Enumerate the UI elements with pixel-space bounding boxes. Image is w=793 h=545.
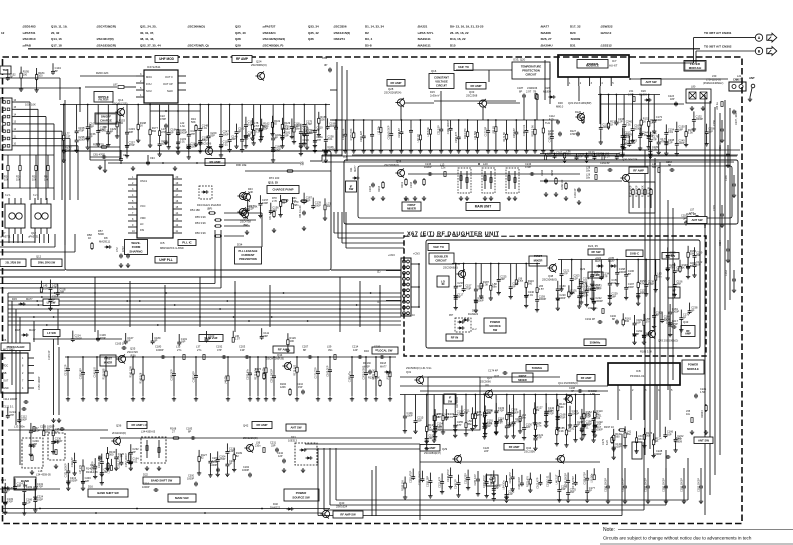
- resistor R157: [636, 259, 647, 306]
- svg-text:R101: R101: [401, 181, 404, 188]
- capacitor C110: [313, 105, 324, 153]
- svg-text:C162 8P: C162 8P: [600, 162, 610, 165]
- resistor R183: [433, 409, 444, 439]
- svg-text:8P: 8P: [519, 89, 522, 93]
- svg-text:12P: 12P: [526, 425, 531, 429]
- svg-text:AMP: AMP: [685, 331, 691, 335]
- svg-text::2SA1832(GR): :2SA1832(GR): [96, 44, 116, 48]
- svg-text:47P: 47P: [457, 423, 462, 427]
- resistor R171: [503, 120, 509, 153]
- svg-text:15: 15: [14, 107, 17, 109]
- inductor L51: [526, 86, 537, 98]
- capacitor C184b: [541, 169, 558, 196]
- svg-text:1000P: 1000P: [242, 469, 250, 472]
- svg-text:47P: 47P: [190, 132, 195, 136]
- svg-text:Q10, 11, 19,: Q10, 11, 19,: [51, 25, 68, 29]
- svg-text:1K: 1K: [88, 236, 91, 240]
- svg-text:Q28: Q28: [235, 37, 241, 41]
- svg-text:IN: IN: [3, 357, 6, 360]
- diode D13: [1, 478, 10, 490]
- diode bank X67: [449, 315, 477, 332]
- transistor Q37b: [480, 365, 548, 399]
- svg-text:C189 1000P: C189 1000P: [419, 471, 422, 485]
- diode D27: [674, 436, 713, 444]
- capacitor C259: [240, 104, 251, 152]
- svg-text:TH1: TH1: [545, 121, 550, 125]
- capacitor C124: [579, 260, 590, 305]
- node (4) left: [300, 162, 304, 166]
- wire bus: [8, 320, 401, 322]
- svg-text:0.01: 0.01: [528, 293, 534, 297]
- transistor Q43: [640, 319, 695, 354]
- label IF SW q37: [444, 394, 459, 408]
- svg-text:R109 10K: R109 10K: [401, 480, 404, 491]
- svg-text:C148 3P: C148 3P: [574, 188, 577, 198]
- wire: [456, 173, 580, 175]
- svg-text:56n: 56n: [652, 166, 657, 169]
- label RF AMP q36: [111, 422, 147, 446]
- svg-text:2.5T: 2.5T: [474, 413, 480, 417]
- capacitor C228: [654, 449, 671, 459]
- capacitor C175: [580, 409, 592, 441]
- svg-text:0.01: 0.01: [132, 459, 138, 463]
- svg-text:3P: 3P: [208, 337, 211, 341]
- svg-text:L61 56n: L61 56n: [387, 371, 390, 381]
- resistor R101: [401, 178, 426, 201]
- svg-text:2.7K: 2.7K: [272, 200, 277, 203]
- svg-text:UHF TX: UHF TX: [458, 65, 469, 69]
- label WAVE-FORM SHAPING: [125, 240, 148, 255]
- svg-text:C172 8P: C172 8P: [485, 126, 488, 136]
- svg-text:33P: 33P: [428, 436, 433, 440]
- svg-text:560: 560: [109, 453, 114, 457]
- svg-text:C214 47P: C214 47P: [91, 461, 94, 472]
- svg-text:MODULE: MODULE: [586, 64, 599, 68]
- main unit dashed border: [3, 57, 743, 524]
- svg-text:Q12: Q12: [31, 231, 36, 235]
- diode D11: [350, 165, 360, 180]
- wire bus: [334, 212, 404, 233]
- svg-text:C182 16P: C182 16P: [193, 371, 196, 382]
- label D22 BAND SHIFT SW: [143, 473, 180, 485]
- resistor R156: [482, 394, 493, 439]
- svg-text:C200 12P: C200 12P: [360, 130, 363, 141]
- capacitor C257: [513, 119, 519, 153]
- svg-text:R156 598: R156 598: [103, 368, 106, 379]
- svg-text:(BP): (BP): [207, 207, 212, 211]
- inductor L13: [440, 163, 446, 177]
- svg-text:C121 1000P: C121 1000P: [65, 463, 68, 477]
- svg-text:1000P: 1000P: [595, 428, 603, 432]
- svg-text::DA221: :DA221: [417, 25, 428, 29]
- capacitor C136: [474, 263, 485, 313]
- svg-text:C246 8P: C246 8P: [398, 128, 401, 138]
- capacitor C103: [205, 331, 215, 343]
- wire vertical bus: [672, 208, 674, 380]
- svg-text:OUT UP: OUT UP: [163, 82, 173, 86]
- svg-text:14: 14: [14, 114, 17, 116]
- resistor R143: [556, 399, 567, 430]
- transistor Q15: [239, 192, 257, 226]
- resistor R156: [103, 356, 109, 401]
- capacitor C72: [116, 246, 130, 268]
- capacitor C132: [692, 111, 704, 131]
- svg-text:56n: 56n: [627, 432, 632, 436]
- svg-text:56n: 56n: [522, 416, 527, 420]
- svg-text:ON/OFF: ON/OFF: [101, 115, 112, 119]
- svg-text:D5?: D5?: [449, 315, 454, 317]
- resistor R129: [286, 333, 297, 352]
- inductor L36 block: [141, 423, 166, 471]
- svg-text:56n: 56n: [468, 422, 473, 426]
- svg-text:47P: 47P: [537, 436, 542, 440]
- X67 inner enclosure: [426, 240, 700, 348]
- wire: [15, 309, 17, 425]
- svg-text:47K: 47K: [640, 282, 645, 286]
- svg-text:470P: 470P: [559, 415, 565, 419]
- resistor R133: [607, 94, 617, 130]
- resistor R176: [684, 125, 695, 147]
- svg-text:47P: 47P: [487, 411, 492, 415]
- resistor R161: [622, 313, 632, 326]
- svg-text:3P: 3P: [9, 75, 12, 79]
- svg-text:100P: 100P: [615, 445, 621, 449]
- svg-text:Q37: Q37: [487, 376, 492, 380]
- svg-text:16: 16: [14, 100, 17, 102]
- svg-text:100P: 100P: [21, 417, 27, 421]
- svg-text:1000P: 1000P: [33, 429, 41, 433]
- svg-text:47P: 47P: [217, 348, 222, 352]
- capacitor C105: [537, 474, 543, 489]
- capacitor C150: [548, 130, 580, 137]
- svg-text:3: 3: [591, 82, 593, 85]
- resistor R131: [527, 473, 533, 493]
- svg-text:L20: L20: [483, 162, 488, 166]
- resistor R137: [425, 394, 436, 451]
- svg-text:2R66, 2R43 SW: 2R66, 2R43 SW: [38, 262, 56, 265]
- svg-text:C229: C229: [713, 205, 716, 211]
- svg-text:SHAPING: SHAPING: [129, 249, 143, 253]
- svg-text:3P: 3P: [636, 332, 639, 336]
- svg-text:Q23: Q23: [235, 25, 241, 29]
- capacitor C108: [660, 312, 670, 324]
- svg-text::uPAB: :uPAB: [22, 44, 32, 48]
- svg-text:CHARGE PUMP: CHARGE PUMP: [273, 188, 294, 192]
- svg-text::2SC5066(O): :2SC5066(O): [187, 25, 205, 29]
- svg-text:8P: 8P: [110, 130, 113, 134]
- diode D26: [543, 86, 556, 99]
- svg-text:Q37: Q37: [494, 374, 500, 378]
- capacitor C238: [688, 303, 698, 315]
- svg-text:RF AMP: RF AMP: [471, 84, 482, 88]
- svg-text:47P: 47P: [596, 154, 601, 158]
- wire: [60, 104, 330, 106]
- svg-text:C66: C66: [322, 56, 328, 60]
- diode D34 detail: [197, 186, 221, 211]
- svg-text:12P: 12P: [457, 284, 462, 288]
- transistor Q14: [112, 98, 128, 117]
- resistor R54: [190, 208, 216, 214]
- svg-text:3P: 3P: [127, 339, 130, 343]
- svg-text:L47 27n: L47 27n: [79, 464, 82, 474]
- svg-text:MAIN VHF: MAIN VHF: [175, 496, 189, 500]
- label 350MHz: [584, 339, 606, 346]
- svg-text:1000P: 1000P: [329, 124, 337, 128]
- svg-text:8P: 8P: [612, 318, 615, 321]
- svg-text:D16: D16: [88, 485, 93, 489]
- wire: [694, 38, 756, 63]
- resistor R129: [280, 118, 291, 148]
- capacitor C198: [644, 468, 650, 504]
- svg-text:470P: 470P: [129, 143, 135, 147]
- transistor Q23x: [580, 267, 603, 278]
- svg-text:TO XBT A/T CN301: TO XBT A/T CN301: [704, 31, 732, 35]
- capacitor C213: [438, 120, 444, 153]
- svg-text:Q17, 18: Q17, 18: [51, 44, 62, 48]
- svg-text:13: 13: [14, 122, 17, 124]
- resistor R152: [639, 95, 650, 136]
- op-amp U-IC6 prescaler: [1, 348, 34, 394]
- svg-text:L42 56n: L42 56n: [474, 130, 477, 140]
- capacitor C246: [424, 162, 433, 176]
- resistor R119: [270, 116, 280, 136]
- svg-text:18n: 18n: [586, 177, 591, 180]
- label RF AMP q34: [483, 444, 565, 464]
- svg-text:1000P: 1000P: [602, 125, 610, 129]
- node (2) x67: [377, 300, 401, 304]
- capacitor C180: [155, 345, 166, 360]
- svg-text:Q28: Q28: [388, 87, 394, 91]
- svg-text:+CN3: +CN3: [388, 253, 395, 257]
- capacitor C195: [614, 94, 624, 126]
- capacitor C233: [125, 105, 136, 158]
- resistor R116: [524, 263, 535, 308]
- svg-text:8P: 8P: [275, 136, 278, 140]
- capacitor C214: [352, 345, 363, 360]
- capacitor C139: [80, 356, 86, 401]
- svg-text:C179: C179: [602, 438, 605, 445]
- resistor R109: [232, 448, 243, 472]
- connector left ladder: [0, 98, 17, 150]
- svg-text:27n: 27n: [197, 348, 202, 352]
- svg-text:3P: 3P: [589, 489, 592, 493]
- capacitor C152: [6, 69, 16, 81]
- svg-text:RF AMP: RF AMP: [236, 57, 249, 61]
- inductor L57: [681, 209, 707, 229]
- svg-text:100P: 100P: [161, 142, 167, 146]
- svg-text:IN: IN: [442, 282, 445, 286]
- X67 daughter unit dashed box: [404, 236, 706, 356]
- connector CN4: [729, 78, 746, 92]
- svg-text:Q34: Q34: [526, 446, 532, 450]
- capacitor C196: [604, 468, 610, 504]
- svg-text:R197 10: R197 10: [604, 425, 614, 429]
- capacitor C193: [697, 468, 703, 504]
- svg-text:C114 33P: C114 33P: [464, 473, 467, 484]
- node (4): [300, 155, 322, 165]
- svg-text:D13: D13: [1, 478, 6, 482]
- svg-text:C198 47n: C198 47n: [349, 371, 352, 382]
- svg-text:D31: D31: [570, 44, 576, 48]
- svg-text:C194 1000P: C194 1000P: [388, 125, 391, 139]
- inductor L33: [14, 425, 65, 432]
- svg-text:100P: 100P: [190, 144, 196, 148]
- inductor L21: [323, 198, 332, 220]
- svg-text:ANT SW: ANT SW: [290, 426, 301, 430]
- svg-text:RF AMP: RF AMP: [509, 445, 520, 449]
- svg-text:Circuits are subject to change: Circuits are subject to change without n…: [603, 536, 752, 541]
- svg-text:8P: 8P: [55, 69, 58, 73]
- wire: [11, 301, 13, 385]
- svg-text:100P: 100P: [628, 285, 634, 289]
- label RF AMP q41: [558, 375, 597, 397]
- svg-text:AU-6T: AU-6T: [609, 64, 618, 68]
- svg-text:1: 1: [619, 389, 621, 392]
- svg-text:2.5T: 2.5T: [65, 134, 71, 138]
- transformer L20: [458, 162, 519, 201]
- svg-text:8P: 8P: [202, 138, 205, 142]
- label POWER MODULE IC8: [682, 360, 704, 374]
- svg-text:1K: 1K: [140, 124, 143, 128]
- svg-text:3P: 3P: [229, 462, 232, 466]
- wire: [456, 70, 512, 82]
- label FIRST MIXER sub: [100, 342, 138, 367]
- svg-text:CURRENT: CURRENT: [241, 253, 254, 257]
- svg-text:470P: 470P: [465, 286, 471, 290]
- capacitor C107: [124, 333, 134, 345]
- node TO XBT A/T CN301: [704, 31, 732, 35]
- svg-text:2SC4738: 2SC4738: [240, 219, 251, 223]
- capacitor C153: [620, 128, 631, 158]
- svg-text:D18: D18: [15, 328, 20, 332]
- capacitor C192: [216, 345, 227, 360]
- capacitor C191: [585, 315, 619, 325]
- resistor R178: [373, 356, 379, 401]
- svg-text:560: 560: [625, 319, 630, 323]
- svg-text:1000P: 1000P: [595, 299, 603, 303]
- filter L80: [686, 85, 711, 111]
- capacitor C245: [305, 126, 316, 150]
- inductor L27: [432, 395, 443, 443]
- svg-text::2SC4738(GR): :2SC4738(GR): [96, 25, 116, 29]
- capacitor C91: [119, 150, 128, 162]
- svg-text:C188 0.01: C188 0.01: [523, 124, 526, 136]
- wire bus: [346, 212, 404, 248]
- resistor R198: [136, 104, 147, 143]
- svg-text:100P: 100P: [223, 132, 229, 136]
- svg-text:VOLTAGE: VOLTAGE: [435, 80, 448, 84]
- capacitor C214: [71, 331, 82, 343]
- wire: [330, 90, 342, 120]
- svg-text::uPA5731: :uPA5731: [22, 31, 36, 35]
- svg-text:1K: 1K: [610, 122, 613, 126]
- svg-text:1000P: 1000P: [70, 479, 78, 483]
- diode D32: [270, 502, 294, 511]
- svg-text:25K1215(O): 25K1215(O): [243, 436, 258, 440]
- svg-text:L34-4359-05: L34-4359-05: [36, 473, 51, 477]
- capacitor C194: [388, 120, 394, 153]
- capacitor C22 block: [150, 110, 200, 150]
- svg-text:Q41 2SC5066(O): Q41 2SC5066(O): [558, 381, 578, 385]
- svg-text:D15: D15: [450, 44, 456, 48]
- inductor L56: [255, 442, 279, 453]
- svg-text:1000P: 1000P: [156, 348, 164, 352]
- svg-text:1000P: 1000P: [55, 439, 63, 443]
- svg-text:1000P: 1000P: [424, 165, 432, 169]
- svg-text:12P: 12P: [508, 492, 513, 496]
- svg-text:22P: 22P: [484, 450, 489, 453]
- resistor R165: [278, 195, 289, 217]
- svg-text:D16: D16: [364, 349, 369, 353]
- svg-text:C121 5.1: C121 5.1: [3, 405, 14, 409]
- svg-text:8P: 8P: [188, 430, 191, 434]
- svg-text:47P: 47P: [563, 271, 568, 275]
- svg-text:C178 470P: C178 470P: [572, 476, 575, 489]
- svg-text:0.01: 0.01: [448, 415, 454, 419]
- capacitor C172: [485, 119, 491, 153]
- svg-text:100, 10K: 100, 10K: [25, 103, 36, 107]
- power module pins: [568, 78, 614, 125]
- svg-text:1K: 1K: [643, 119, 646, 123]
- svg-text:D15: D15: [12, 297, 17, 301]
- svg-text:RF IN: RF IN: [451, 336, 459, 340]
- op-amp U-IC5 PLL: [128, 175, 182, 238]
- svg-text:16P: 16P: [548, 409, 553, 413]
- capacitor C117: [599, 94, 611, 145]
- capacitor C140: [94, 356, 100, 401]
- svg-text:33P: 33P: [272, 208, 277, 212]
- svg-text:C158 16P: C158 16P: [427, 476, 430, 487]
- svg-text:VHF TX: VHF TX: [433, 245, 444, 249]
- wire: [558, 259, 660, 261]
- svg-text:D22: D22: [143, 473, 148, 477]
- svg-text:8P: 8P: [317, 128, 320, 132]
- diode D24: [595, 257, 604, 268]
- label POWER SOURCE SW: [284, 489, 319, 501]
- wire: [600, 103, 684, 105]
- capacitor C184: [167, 105, 178, 150]
- resistor R124: [651, 433, 662, 458]
- svg-text:L50 56n: L50 56n: [590, 473, 593, 483]
- svg-text:L32 1R: L32 1R: [417, 134, 420, 142]
- svg-text:27n: 27n: [537, 424, 542, 428]
- transistor Q41b: [563, 394, 572, 403]
- wire L33 rail: [8, 429, 108, 431]
- svg-text::3SK274: :3SK274: [333, 37, 345, 41]
- connector arrow CN301: [767, 33, 777, 42]
- label UHF MOD: [155, 56, 178, 63]
- svg-text:C224: C224: [719, 240, 722, 246]
- capacitor C186: [662, 468, 668, 504]
- label CHARGE PUMP: [267, 181, 299, 194]
- PLL section enclosure: [65, 151, 331, 270]
- svg-text:12P: 12P: [52, 285, 57, 289]
- svg-text:12: 12: [14, 129, 17, 131]
- inductor L53: [263, 356, 269, 401]
- svg-text:0.01: 0.01: [626, 122, 632, 126]
- inductor L30: [232, 331, 240, 342]
- svg-text:2SK1624: 2SK1624: [336, 505, 348, 509]
- svg-text:D21 MA77: D21 MA77: [456, 396, 459, 408]
- svg-text::2SK1824: :2SK1824: [262, 31, 276, 35]
- label RF AMP: [232, 56, 252, 63]
- wire vertical bus: [654, 158, 656, 443]
- wire bus: [8, 300, 401, 302]
- label RF SW r1: [662, 253, 679, 260]
- wire: [0, 78, 81, 112]
- capacitor C188: [171, 356, 177, 401]
- svg-text:D32: D32: [273, 502, 278, 506]
